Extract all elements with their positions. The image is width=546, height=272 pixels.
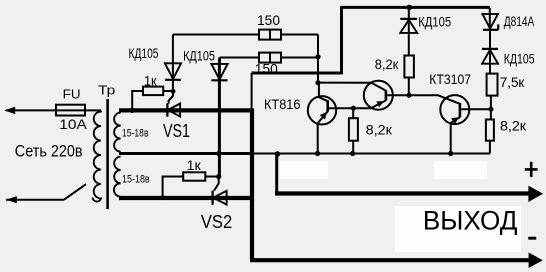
svg-text:КД105: КД105 [129,45,159,61]
svg-text:8,2к: 8,2к [366,121,393,137]
svg-text:150: 150 [255,60,278,76]
svg-text:Сеть 220в: Сеть 220в [15,141,83,160]
svg-text:8,2к: 8,2к [500,118,527,134]
svg-text:1к: 1к [187,157,202,173]
svg-text:FU: FU [63,87,81,102]
svg-text:КД105: КД105 [183,48,215,64]
svg-text:VS2: VS2 [201,212,232,232]
svg-text:1к: 1к [144,73,157,89]
svg-text:150: 150 [257,12,280,28]
svg-text:8,2к: 8,2к [375,56,399,72]
svg-text:ВЫХОД: ВЫХОД [423,206,518,236]
svg-text:Д814А: Д814А [504,13,535,29]
svg-text:КД105: КД105 [504,50,535,66]
svg-text:VS1: VS1 [163,121,190,141]
svg-text:КД105: КД105 [418,14,451,30]
svg-text:7,5к: 7,5к [500,74,525,90]
svg-text:15-18в: 15-18в [122,173,150,185]
svg-text:15-18в: 15-18в [122,127,149,139]
svg-text:10A: 10A [59,116,87,132]
svg-text:КТ3107: КТ3107 [429,71,471,87]
svg-text:Тр: Тр [98,83,115,98]
svg-text:КТ816: КТ816 [264,96,301,112]
